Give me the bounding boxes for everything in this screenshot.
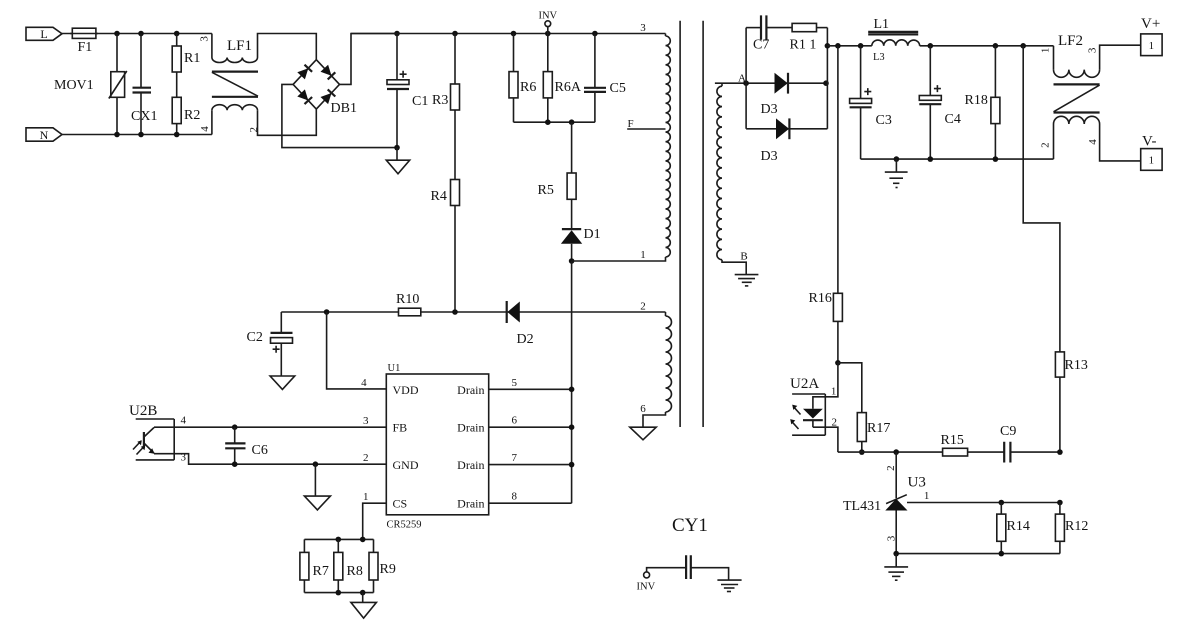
svg-text:R1: R1 xyxy=(184,51,200,66)
wire node A line (secondary top to D3 cathode bus) xyxy=(715,82,828,84)
svg-text:6: 6 xyxy=(511,415,517,427)
svg-text:R9: R9 xyxy=(380,562,396,577)
connector L xyxy=(26,27,62,41)
svg-text:C9: C9 xyxy=(1000,424,1016,439)
common-mode choke LF2 xyxy=(1039,33,1140,161)
svg-text:U3: U3 xyxy=(908,475,926,491)
wire U1 pin 7 Drain xyxy=(489,464,572,466)
svg-text:C5: C5 xyxy=(610,81,626,96)
wire V+ rail down to R13 xyxy=(1023,46,1060,352)
svg-text:1: 1 xyxy=(1149,40,1155,52)
svg-text:R10: R10 xyxy=(396,292,419,307)
fuse F1 xyxy=(70,28,98,55)
svg-text:D2: D2 xyxy=(517,332,534,347)
svg-text:D3: D3 xyxy=(761,149,778,164)
ground at C1 xyxy=(386,145,409,174)
transformer T1 core xyxy=(680,21,703,427)
resistor R17 xyxy=(838,363,890,455)
op-amp U1 CR5259 controller xyxy=(386,363,488,531)
ground at transformer pin 6 xyxy=(630,427,656,440)
resistor R15 xyxy=(941,433,968,456)
transformer T1 secondary winding (A-B) xyxy=(717,73,748,275)
capacitor CX1 xyxy=(131,34,157,135)
connector V- xyxy=(1141,134,1162,171)
svg-text:R6A: R6A xyxy=(555,80,582,95)
wire U2B pin4 to U1 FB pin 3 xyxy=(154,426,386,428)
svg-text:2: 2 xyxy=(831,416,837,428)
svg-text:2: 2 xyxy=(885,465,897,471)
capacitor C5 xyxy=(584,34,626,123)
wire U3 anode rail xyxy=(896,553,1060,555)
optocoupler U2B transistor side xyxy=(129,403,186,464)
wire top rail DB1 output to transformer pin 3 xyxy=(351,33,666,35)
svg-text:Drain: Drain xyxy=(457,458,484,472)
svg-text:1: 1 xyxy=(1039,48,1051,54)
resistor R1 xyxy=(172,34,200,98)
svg-text:DB1: DB1 xyxy=(331,101,357,116)
wire transformer pin1 to D1 junction xyxy=(572,257,666,261)
capacitor C3 xyxy=(850,46,892,159)
svg-text:Drain: Drain xyxy=(457,421,484,435)
svg-text:L: L xyxy=(40,27,47,41)
resistor R9 xyxy=(369,539,396,592)
svg-text:R1 1: R1 1 xyxy=(790,38,817,53)
svg-text:CY1: CY1 xyxy=(672,515,708,536)
svg-text:3: 3 xyxy=(885,535,897,541)
node F tap of primary xyxy=(627,118,665,130)
svg-text:R5: R5 xyxy=(538,183,554,198)
resistor R6A xyxy=(543,34,582,123)
diode D2 xyxy=(507,301,534,347)
svg-text:R4: R4 xyxy=(431,189,447,204)
node: junction dots on top rail xyxy=(114,31,120,37)
resistor R11 xyxy=(790,23,828,52)
svg-text:CX1: CX1 xyxy=(131,109,157,124)
wire snubber left leg xyxy=(745,28,747,129)
capacitor C9 xyxy=(1000,424,1016,463)
wire top rail of R7/R8/R9 xyxy=(304,538,373,540)
wire snubber right leg / cathode bus xyxy=(826,28,828,129)
svg-text:C7: C7 xyxy=(753,38,769,53)
resistor R3 xyxy=(432,34,460,180)
capacitor C7 xyxy=(746,15,792,52)
svg-text:B: B xyxy=(740,251,747,263)
svg-text:C2: C2 xyxy=(247,330,263,345)
wire rectified output to L1 xyxy=(827,45,871,47)
svg-text:6: 6 xyxy=(640,403,646,415)
wire U1 CS pin 1 to sense resistors xyxy=(363,503,387,539)
earth ground at node B xyxy=(735,275,759,286)
earth ground at C3/C4 rail xyxy=(885,159,908,187)
svg-text:TL431: TL431 xyxy=(843,499,881,514)
svg-text:CR5259: CR5259 xyxy=(387,520,422,531)
wire U2B pin3 to U1 GND pin 2 xyxy=(154,454,386,465)
svg-text:N: N xyxy=(40,128,49,142)
svg-text:FB: FB xyxy=(393,421,408,435)
svg-text:U1: U1 xyxy=(388,363,401,374)
wire bottom rail N to LF1 pin4 xyxy=(62,134,212,136)
svg-text:VDD: VDD xyxy=(393,383,419,397)
svg-text:1: 1 xyxy=(831,386,837,398)
wire bottom rail of R6/R6A/C5 group xyxy=(514,121,595,123)
wire U3 reference pin 1 line xyxy=(907,502,1060,504)
ground at sense resistors xyxy=(351,593,377,619)
svg-text:1: 1 xyxy=(924,490,930,502)
svg-text:CS: CS xyxy=(393,497,408,511)
svg-text:R17: R17 xyxy=(867,421,890,436)
svg-text:4: 4 xyxy=(180,415,186,427)
capacitor C6 xyxy=(225,424,268,467)
svg-text:L3: L3 xyxy=(873,52,885,63)
node INV (top) xyxy=(538,11,557,34)
svg-text:8: 8 xyxy=(511,491,517,503)
capacitor C2 xyxy=(247,312,293,376)
svg-text:2: 2 xyxy=(1040,142,1052,148)
node R16 bottom junction xyxy=(835,360,841,366)
svg-text:R14: R14 xyxy=(1007,519,1030,534)
svg-text:GND: GND xyxy=(393,458,419,472)
svg-text:3: 3 xyxy=(198,36,210,42)
svg-text:LF2: LF2 xyxy=(1058,33,1083,49)
common-mode choke LF1 xyxy=(198,34,316,136)
earth ground at CY1 xyxy=(717,580,741,591)
capacitor CY1 xyxy=(637,515,729,593)
svg-text:U2B: U2B xyxy=(129,403,157,419)
earth ground at U3 xyxy=(884,554,908,581)
svg-text:F1: F1 xyxy=(78,40,93,55)
diode D3 (upper) xyxy=(761,73,789,117)
resistor R4 xyxy=(431,180,460,313)
wire U1 pin 6 Drain xyxy=(489,426,572,428)
resistor R14 xyxy=(997,503,1030,554)
svg-text:R3: R3 xyxy=(432,93,448,108)
svg-text:1: 1 xyxy=(1149,155,1155,167)
inductor L1 xyxy=(868,17,920,63)
transformer T1 primary winding (pins 3-1) xyxy=(640,22,670,261)
svg-text:LF1: LF1 xyxy=(227,38,252,54)
svg-text:R18: R18 xyxy=(965,93,988,108)
resistor R10 xyxy=(396,292,421,316)
svg-text:Drain: Drain xyxy=(457,497,484,511)
wire DB1 left corner to C1 bottom / ground xyxy=(282,84,397,147)
resistor R8 xyxy=(334,539,363,592)
svg-text:3: 3 xyxy=(1087,47,1099,53)
connector N xyxy=(26,128,62,142)
wire VDD net (C2 / R10 / R4 / D2 to aux pin 2) xyxy=(281,311,665,313)
diode D3 (lower) xyxy=(746,118,827,164)
svg-text:2: 2 xyxy=(363,452,369,464)
wire drain vertical from pin1 node down to U1 drains xyxy=(571,261,573,503)
ground at C2 xyxy=(270,376,295,389)
svg-text:7: 7 xyxy=(511,452,517,464)
svg-text:V+: V+ xyxy=(1141,16,1160,32)
wire U1 pin 5 Drain xyxy=(489,388,572,390)
svg-text:L1: L1 xyxy=(874,17,890,32)
svg-text:R2: R2 xyxy=(184,108,200,123)
resistor R13 xyxy=(1055,352,1087,452)
svg-text:V-: V- xyxy=(1142,134,1156,150)
svg-text:Drain: Drain xyxy=(457,383,484,397)
resistor R5 xyxy=(538,122,577,229)
transformer T1 auxiliary winding (pins 2-6) xyxy=(640,301,671,428)
svg-text:C4: C4 xyxy=(945,112,961,127)
svg-text:1: 1 xyxy=(640,249,646,261)
diode D1 xyxy=(561,227,601,261)
resistor R18 xyxy=(965,46,1000,159)
optocoupler U2A LED side xyxy=(790,363,838,452)
svg-text:R8: R8 xyxy=(347,564,363,579)
svg-text:5: 5 xyxy=(511,377,517,389)
wire bottom rail of R7/R8/R9 xyxy=(304,592,373,594)
wire U1 pin 8 Drain xyxy=(489,502,572,504)
capacitor C4 xyxy=(919,46,961,159)
svg-text:3: 3 xyxy=(640,22,646,34)
svg-text:U2A: U2A xyxy=(790,376,819,392)
svg-text:C1: C1 xyxy=(412,94,428,109)
capacitor C1 xyxy=(387,31,428,148)
svg-text:D3: D3 xyxy=(761,102,778,117)
svg-text:4: 4 xyxy=(199,126,211,132)
wire L to F1 and top rail to LF1 pin3 xyxy=(62,33,212,35)
ground at U1 GND line xyxy=(304,461,330,509)
node: D1 anode / transformer pin 1 junction xyxy=(569,258,575,264)
bridge rectifier DB1 xyxy=(293,60,357,116)
svg-text:R7: R7 xyxy=(313,564,329,579)
wire feedback line U2A cathode to R13 bottom xyxy=(838,451,1060,453)
svg-text:R16: R16 xyxy=(809,291,832,306)
wire L1 output rail to LF2 pin 1 xyxy=(920,45,1054,47)
svg-text:D1: D1 xyxy=(584,227,601,242)
svg-text:4: 4 xyxy=(361,377,367,389)
svg-text:3: 3 xyxy=(363,415,369,427)
wire DB1 right corner to top rail xyxy=(340,34,398,85)
svg-text:2: 2 xyxy=(248,127,260,133)
svg-text:C6: C6 xyxy=(252,443,268,458)
resistor R7 xyxy=(300,539,329,592)
svg-text:C3: C3 xyxy=(876,113,892,128)
svg-text:INV: INV xyxy=(637,582,656,593)
svg-text:MOV1: MOV1 xyxy=(54,78,94,93)
resistor R16 xyxy=(809,46,843,363)
resistor R12 xyxy=(1055,503,1088,554)
svg-text:R15: R15 xyxy=(941,433,964,448)
svg-text:R12: R12 xyxy=(1065,519,1088,534)
svg-text:4: 4 xyxy=(1087,139,1099,145)
wire secondary ground rail xyxy=(861,158,1054,160)
svg-text:R6: R6 xyxy=(520,80,536,95)
shunt regulator U3 TL431 xyxy=(843,452,926,553)
svg-text:F: F xyxy=(628,118,634,130)
wire VDD branch down to U1 pin 4 xyxy=(327,312,387,389)
varistor MOV1 xyxy=(54,34,127,135)
svg-text:2: 2 xyxy=(640,301,646,313)
svg-text:R13: R13 xyxy=(1065,358,1088,373)
svg-text:1: 1 xyxy=(363,491,369,503)
resistor R2 xyxy=(172,97,200,134)
connector V+ xyxy=(1141,16,1162,56)
resistor R6 xyxy=(509,34,536,123)
